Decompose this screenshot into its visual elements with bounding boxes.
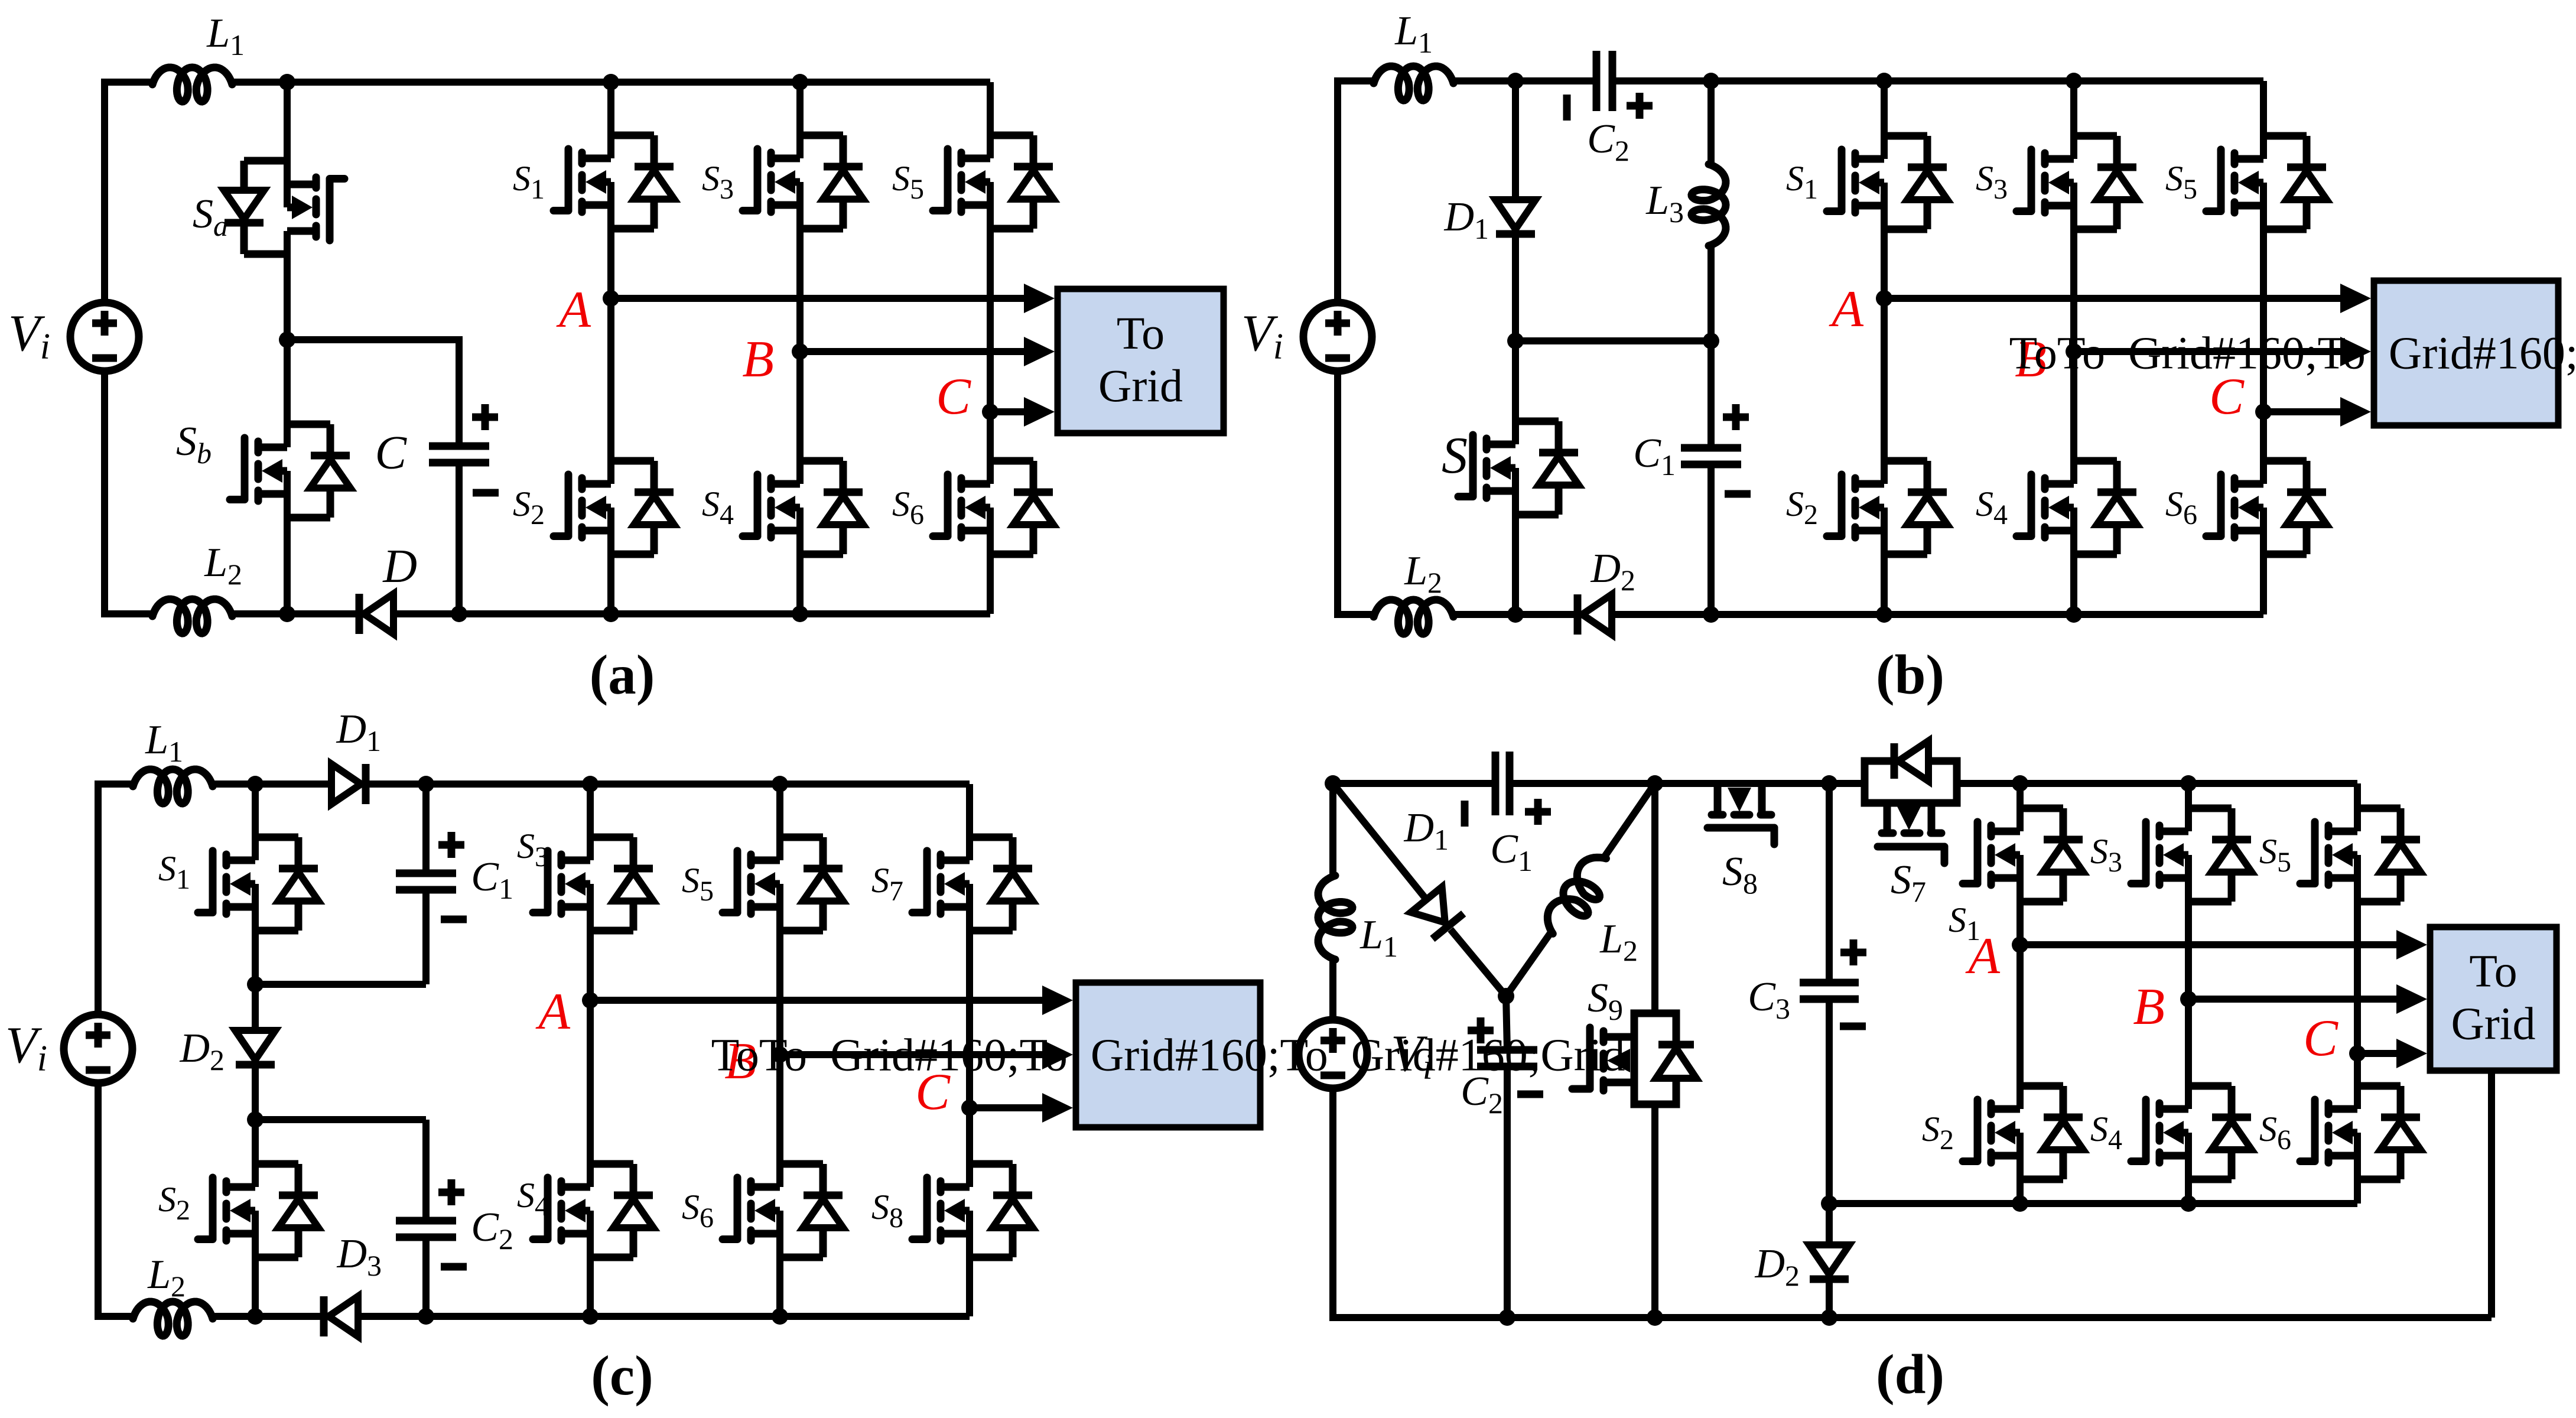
wire mid2 row (c)	[255, 1116, 426, 1123]
voltage source Vi (b)	[1303, 303, 1372, 371]
svg-text:S7: S7	[871, 861, 903, 907]
svg-text:S4: S4	[1976, 484, 2008, 531]
junction D1/S/mid wire (b)	[1507, 333, 1524, 349]
inductor L1 (d)	[1318, 876, 1352, 960]
transistor S3 (d)	[2131, 808, 2252, 902]
capacitor C (a)	[429, 446, 489, 463]
node label A (a)	[556, 281, 591, 339]
wire grid return (d)	[2488, 1071, 2495, 1318]
wire top rail	[232, 79, 990, 86]
wire Sa source to mid node	[284, 254, 291, 340]
minus of C (a)	[473, 489, 499, 497]
svg-text:D2: D2	[179, 1026, 225, 1076]
label L1 (b)	[1394, 8, 1433, 59]
wire S6 to bottom rail (b)	[2260, 554, 2267, 614]
wire Sa drain	[284, 82, 291, 161]
svg-text:S6: S6	[892, 484, 924, 531]
label D1 (d)	[1403, 805, 1449, 856]
svg-text:S8: S8	[871, 1188, 903, 1234]
node C junction (d)	[2349, 1045, 2366, 1062]
wire left rail bottom	[101, 370, 108, 614]
svg-text:S1: S1	[158, 849, 190, 895]
junction bottom rail / S2 leg	[603, 606, 619, 622]
wire S1 to node (b)	[1881, 229, 1888, 298]
diode D2 (d)	[1809, 1245, 1849, 1279]
diode D1 (d)	[1411, 887, 1463, 939]
node label B (b)	[2015, 331, 2047, 388]
inductor L1 (a)	[152, 67, 232, 102]
svg-text:D1: D1	[1403, 805, 1449, 856]
svg-text:L1: L1	[1394, 8, 1433, 59]
svg-text:B: B	[742, 331, 774, 388]
junction top rail / S3 leg (b)	[2066, 73, 2082, 89]
wire bottom rail segment 2	[232, 610, 359, 617]
label S6 (d)	[2259, 1110, 2291, 1156]
svg-text:S1: S1	[1786, 159, 1818, 205]
label C2 (c)	[471, 1205, 513, 1256]
wire bottom rail 3 (c)	[358, 1313, 970, 1320]
svg-text:Vi: Vi	[5, 1017, 47, 1079]
label D1 (b)	[1443, 194, 1489, 245]
wire node to S2	[607, 298, 614, 461]
svg-text:S3: S3	[1976, 159, 2008, 205]
plus of C3 (d)	[1840, 939, 1866, 965]
wire capacitor C to bottom rail	[456, 463, 463, 614]
node label B (d)	[2133, 978, 2165, 1036]
junction bridge rail / S4 (d)	[2180, 1195, 2197, 1212]
label L2 (b)	[1404, 548, 1442, 599]
wire S5 to node	[987, 229, 994, 412]
arrow node A to grid (d)	[2020, 930, 2427, 960]
label S7 (d)	[1891, 857, 1926, 908]
wire S5 drain leg (c)	[776, 784, 783, 837]
wire S4 to bottom rail	[796, 554, 804, 614]
svg-text:L2: L2	[1599, 916, 1638, 967]
junction Sa/Sb/C node	[279, 331, 295, 348]
wire mid node to capacitor C	[287, 340, 459, 446]
svg-text:Vi: Vi	[8, 305, 50, 367]
junction top rail / S3 leg	[792, 74, 808, 90]
junction C3 branch (d)	[1821, 775, 1837, 792]
plus of C1 (c)	[438, 832, 464, 858]
To Grid box (d)	[2430, 927, 2557, 1071]
label S3 (a)	[702, 159, 734, 205]
svg-text:L3: L3	[1645, 178, 1684, 229]
junction center node (d)	[1498, 988, 1514, 1004]
wire D2 to bottom rail (d)	[1826, 1279, 1833, 1318]
junction top rail / S1 (c)	[247, 776, 264, 792]
arrow node B to grid (c)	[780, 1040, 1073, 1069]
transistor S4 (a)	[743, 460, 863, 555]
svg-text:D1: D1	[336, 707, 381, 757]
node label A (c)	[535, 983, 571, 1040]
label S2 (b)	[1786, 484, 1818, 531]
wire mid2 to C2 (c)	[422, 1120, 430, 1221]
node C junction (a)	[982, 404, 998, 420]
transistor S5 (d)	[2300, 808, 2421, 902]
label S7 (c)	[871, 861, 903, 907]
label S4 (d)	[2090, 1110, 2122, 1156]
wire Sb source to bottom rail	[284, 518, 291, 614]
label S5 (d)	[2259, 832, 2291, 878]
svg-text:ToTo Grid#160;To Grid#160;To: ToTo Grid#160;To Grid#160;To Grid#160;Gr…	[2009, 327, 2576, 379]
wire S7 drain leg (c)	[966, 784, 973, 837]
minus of C2 (c)	[441, 1263, 467, 1271]
label C1 (d)	[1490, 827, 1533, 877]
junction top rail / S1 leg (b)	[1876, 73, 1892, 89]
wire S6 to bottom rail (c)	[776, 1257, 783, 1316]
minus of C1 (b)	[1725, 490, 1751, 498]
wire S7 to bridge (d)	[1957, 780, 2357, 787]
transistor S6 (d)	[2300, 1085, 2421, 1180]
svg-text:D3: D3	[336, 1231, 382, 1282]
label S3 (c)	[517, 827, 549, 873]
wire S8 to bottom rail (c)	[966, 1257, 973, 1316]
svg-text:C2: C2	[471, 1205, 513, 1256]
label S8 (c)	[871, 1188, 903, 1234]
junction bottom rail / S branch (b)	[1507, 606, 1524, 623]
node label C (a)	[936, 368, 971, 425]
junction bottom rail / S2 (b)	[1876, 606, 1892, 623]
svg-text:S5: S5	[2165, 159, 2197, 205]
capacitor C2 (d)	[1477, 1050, 1537, 1066]
svg-text:S5: S5	[892, 159, 924, 205]
minus of C1 (c)	[441, 916, 467, 923]
transistor S1 (c)	[198, 837, 318, 931]
junction top rail / S1 leg (d)	[2012, 775, 2028, 792]
node B junction (b)	[2066, 343, 2082, 360]
transistor S2 (a)	[554, 460, 674, 555]
arrow node A to grid (a)	[611, 284, 1055, 313]
label S2 (c)	[158, 1180, 190, 1226]
To Grid box (b)	[2009, 281, 2576, 425]
junction top rail / S3 leg (c)	[582, 776, 599, 792]
svg-text:C: C	[2303, 1010, 2338, 1067]
junction bottom rail / S9 (d)	[1647, 1309, 1663, 1326]
inductor L2 (c)	[133, 1302, 213, 1336]
capacitor C1 (d)	[1495, 752, 1510, 815]
transistor S2 (b)	[1827, 460, 1947, 555]
svg-text:S2: S2	[1786, 484, 1818, 531]
plus of C2 (c)	[438, 1179, 464, 1205]
svg-text:C1: C1	[1490, 827, 1533, 877]
wire S3 to node (c)	[587, 931, 594, 1000]
caption (d)	[1876, 1343, 1944, 1406]
arrow node B to grid (d)	[2188, 984, 2427, 1014]
node label B (c)	[724, 1033, 756, 1090]
arrow node C to grid (d)	[2357, 1039, 2427, 1068]
wire bottom rail 1 (b)	[1334, 611, 1374, 618]
label C2 (d)	[1461, 1069, 1503, 1120]
label S5 (a)	[892, 159, 924, 205]
wire S3 drain leg (c)	[587, 784, 594, 837]
label S4 (b)	[1976, 484, 2008, 531]
plus of C2 (d)	[1468, 1017, 1494, 1043]
caption (b)	[1876, 643, 1944, 706]
node label C (d)	[2303, 1010, 2338, 1067]
diode D2 (c)	[235, 1030, 275, 1065]
wire S4 to bottom rail (b)	[2070, 554, 2077, 614]
junction bottom rail / C2 (d)	[1499, 1309, 1515, 1326]
inductor L2 (a)	[152, 599, 232, 633]
svg-text:L1: L1	[1359, 912, 1398, 963]
wire node to S6 (c)	[776, 1055, 783, 1164]
wire L2 diagonal top (d)	[1604, 783, 1655, 857]
wire node to S6	[987, 412, 994, 461]
svg-text:S2: S2	[1922, 1110, 1954, 1156]
svg-text:L1: L1	[206, 11, 245, 61]
wire S3 to node	[796, 229, 804, 352]
junction top rail / S5 leg (c)	[772, 776, 788, 792]
wire top rail segment 1	[101, 79, 152, 86]
node C junction (b)	[2255, 404, 2272, 420]
wire bridge rail to D2 (d)	[1826, 1204, 1833, 1246]
svg-text:S1: S1	[513, 159, 545, 205]
label L3 (b)	[1645, 178, 1684, 229]
label S4 (c)	[517, 1176, 549, 1222]
wire S1 to node (d)	[2016, 902, 2024, 945]
node label B (a)	[742, 331, 774, 388]
junction L2 / S9 branch (d)	[1647, 775, 1663, 792]
svg-text:L2: L2	[1404, 548, 1442, 599]
wire mid row (b)	[1515, 337, 1711, 344]
label Vi (b)	[1241, 305, 1283, 367]
label Vi (c)	[5, 1017, 47, 1079]
wire C1 to bottom rail (b)	[1707, 464, 1715, 614]
junction bottom rail / S4 leg (c)	[582, 1308, 599, 1325]
svg-text:A: A	[1829, 281, 1864, 338]
wire S5 drain leg (b)	[2260, 81, 2267, 136]
wire top rail 2 (c)	[213, 780, 331, 788]
svg-text:S2: S2	[513, 484, 545, 531]
transistor S3 (b)	[2016, 135, 2137, 230]
wire L3 bottom (b)	[1707, 246, 1715, 341]
transistor S (b)	[1458, 421, 1579, 515]
svg-text:To: To	[1117, 307, 1165, 359]
minus of C2 (b)	[1563, 95, 1571, 121]
arrow node C to grid (b)	[2263, 397, 2371, 427]
wire S3 drain leg (b)	[2070, 81, 2077, 136]
label L1 (c)	[145, 717, 183, 768]
voltage source Vi (d)	[1299, 1020, 1367, 1088]
junction bottom rail / D2 (d)	[1821, 1309, 1837, 1326]
label L1 (d)	[1359, 912, 1398, 963]
wire bottom rail left	[101, 610, 152, 617]
svg-text:D2: D2	[1754, 1241, 1800, 1292]
junction bottom rail / C	[451, 606, 467, 622]
svg-text:(b): (b)	[1876, 643, 1944, 706]
wire left rail bottom (b)	[1334, 371, 1341, 614]
wire left rail top	[101, 82, 108, 303]
transistor S3 (c)	[533, 837, 653, 931]
wire bottom rail segment 3	[393, 610, 990, 617]
wire S2 to bottom rail (b)	[1881, 554, 1888, 614]
diode D1 (c)	[331, 764, 366, 804]
wire node to S6 (b)	[2260, 412, 2267, 461]
label L2 (d)	[1599, 916, 1638, 967]
transistor S4 (c)	[533, 1163, 653, 1258]
voltage source Vi (c)	[64, 1014, 132, 1083]
junction bottom rail / S4 leg	[792, 606, 808, 622]
svg-text:Sa: Sa	[193, 191, 228, 242]
node B junction (a)	[792, 343, 808, 360]
wire node to S4	[796, 352, 804, 461]
diode D3 (c)	[324, 1296, 358, 1336]
svg-text:(c): (c)	[591, 1344, 653, 1407]
capacitor C1 (b)	[1681, 448, 1741, 464]
node label C (c)	[915, 1063, 951, 1121]
svg-text:D: D	[382, 541, 417, 593]
svg-text:Sb: Sb	[176, 419, 212, 470]
svg-text:Vi: Vi	[1241, 305, 1283, 367]
node B junction (d)	[2180, 991, 2197, 1007]
label D (a)	[382, 541, 417, 593]
minus of C1 (d)	[1461, 801, 1469, 827]
transistor S2 (c)	[198, 1163, 318, 1258]
svg-text:S6: S6	[2165, 484, 2197, 531]
wire C1 bottom (c)	[422, 890, 430, 984]
minus of C3 (d)	[1840, 1023, 1866, 1030]
svg-text:S6: S6	[682, 1188, 714, 1234]
label D3 (c)	[336, 1231, 382, 1282]
transistor S1 (a)	[554, 135, 674, 229]
arrow node B to grid (b)	[2074, 337, 2371, 366]
wire S5 drain leg	[987, 82, 994, 135]
svg-text:D2: D2	[1590, 546, 1635, 597]
svg-text:C2: C2	[1587, 116, 1629, 167]
wire bottom rail 2 (c)	[213, 1313, 324, 1320]
label D2 (b)	[1590, 546, 1635, 597]
wire top rail 1 (b)	[1334, 77, 1374, 84]
label Sb (a)	[176, 419, 212, 470]
transistor S6 (a)	[933, 460, 1053, 555]
wire L2 diagonal bottom (d)	[1506, 932, 1551, 996]
inductor L1 (b)	[1374, 66, 1453, 100]
junction bottom rail / S2 (c)	[247, 1308, 264, 1325]
node A junction (b)	[1876, 290, 1892, 307]
transistor S5 (b)	[2206, 135, 2327, 230]
wire mid node to Sb	[284, 340, 291, 424]
svg-text:C1: C1	[471, 854, 513, 905]
svg-text:To: To	[2469, 945, 2517, 997]
junction top rail / L3 branch (b)	[1703, 73, 1719, 89]
inductor L2 (d)	[1539, 848, 1621, 944]
wire top rail 1 (d)	[1333, 780, 1495, 787]
plus of C1 (b)	[1723, 404, 1749, 430]
svg-text:S5: S5	[2259, 832, 2291, 878]
wire C2 bottom (c)	[422, 1237, 430, 1316]
junction C3 / bridge rail (d)	[1821, 1195, 1837, 1212]
capacitor C2 (c)	[396, 1221, 456, 1237]
wire C3 to bridge rail (d)	[1826, 999, 1833, 1204]
label S1 (d)	[1949, 900, 1980, 947]
transistor S1 (d)	[1963, 808, 2083, 902]
transistor S7 (c)	[912, 837, 1033, 931]
capacitor C2 (b)	[1596, 51, 1612, 111]
junction bridge rail / S2 (d)	[2012, 1195, 2028, 1212]
svg-text:C3: C3	[1748, 974, 1790, 1025]
diode D1 (b)	[1495, 200, 1536, 234]
label S5 (b)	[2165, 159, 2197, 205]
svg-text:L2: L2	[147, 1252, 186, 1303]
label C3 (d)	[1748, 974, 1790, 1025]
wire L3 top (b)	[1707, 81, 1715, 164]
junction bottom rail / Sb	[279, 606, 295, 622]
wire S3 to node (b)	[2070, 229, 2077, 352]
wire bridge bottom rail (d)	[1829, 1200, 2357, 1207]
wire node to S4 (c)	[587, 1000, 594, 1164]
label Vi (d)	[1391, 1025, 1433, 1087]
wire S1 drain (c)	[252, 784, 259, 837]
svg-text:(a): (a)	[590, 643, 655, 706]
wire S9 bottom (d)	[1651, 1104, 1658, 1318]
wire top rail 2 (b)	[1453, 77, 1596, 84]
svg-text:A: A	[1965, 928, 2001, 985]
wire S6 to bottom rail	[987, 554, 994, 614]
wire left rail mid (d)	[1329, 960, 1336, 1020]
label S1 (c)	[158, 849, 190, 895]
svg-text:(d): (d)	[1876, 1343, 1944, 1406]
node B junction (c)	[772, 1046, 788, 1063]
transistor S2 (d)	[1963, 1085, 2083, 1180]
label C (a)	[375, 427, 408, 479]
wire mid1 to D2 (c)	[252, 984, 259, 1032]
wire C2 to bottom rail (d)	[1504, 1066, 1511, 1318]
svg-text:D1: D1	[1443, 194, 1489, 245]
wire left rail bottom (c)	[95, 1083, 102, 1316]
label S4 (a)	[702, 484, 734, 531]
label D1 (c)	[336, 707, 381, 757]
wire S3 drain leg (d)	[2185, 783, 2192, 808]
svg-text:S4: S4	[702, 484, 734, 531]
arrow node A to grid (c)	[590, 986, 1073, 1015]
wire mid to S (b)	[1512, 341, 1519, 421]
wire S5 to node (d)	[2354, 902, 2361, 1053]
wire rail to S7 (d)	[1829, 780, 1865, 787]
label S6 (b)	[2165, 484, 2197, 531]
svg-text:C: C	[936, 368, 971, 425]
label S (b)	[1442, 427, 1468, 484]
arrow node B to grid (a)	[800, 337, 1055, 366]
node A junction (c)	[582, 992, 599, 1009]
transistor S4 (d)	[2131, 1085, 2252, 1180]
wire node to S4 (d)	[2185, 999, 2192, 1086]
wire D1 anode (b)	[1512, 81, 1519, 201]
diode D2 (b)	[1578, 594, 1612, 635]
label S6 (a)	[892, 484, 924, 531]
junction mid/L3/C1 (b)	[1703, 333, 1719, 349]
plus of C (a)	[472, 404, 498, 430]
arrow node C to grid (c)	[970, 1093, 1073, 1123]
label S2 (d)	[1922, 1110, 1954, 1156]
label S1 (b)	[1786, 159, 1818, 205]
wire bottom rail (d)	[1333, 1314, 2492, 1321]
svg-text:S6: S6	[2259, 1110, 2291, 1156]
wire S1 to node	[607, 229, 614, 298]
svg-text:A: A	[535, 983, 571, 1040]
svg-text:Grid: Grid	[2451, 998, 2536, 1049]
wire S3 to node (d)	[2185, 902, 2192, 999]
label L1 (a)	[206, 11, 245, 61]
wire top rail 1 (c)	[95, 780, 133, 788]
wire S5 drain leg (d)	[2354, 783, 2361, 808]
caption (a)	[590, 643, 655, 706]
transistor S6 (c)	[723, 1163, 843, 1258]
wire S4 to bridge rail (d)	[2185, 1179, 2192, 1204]
junction top rail / Sa	[279, 74, 295, 90]
junction bottom rail / C2 (c)	[418, 1308, 434, 1325]
voltage source Vi (a)	[70, 303, 139, 371]
